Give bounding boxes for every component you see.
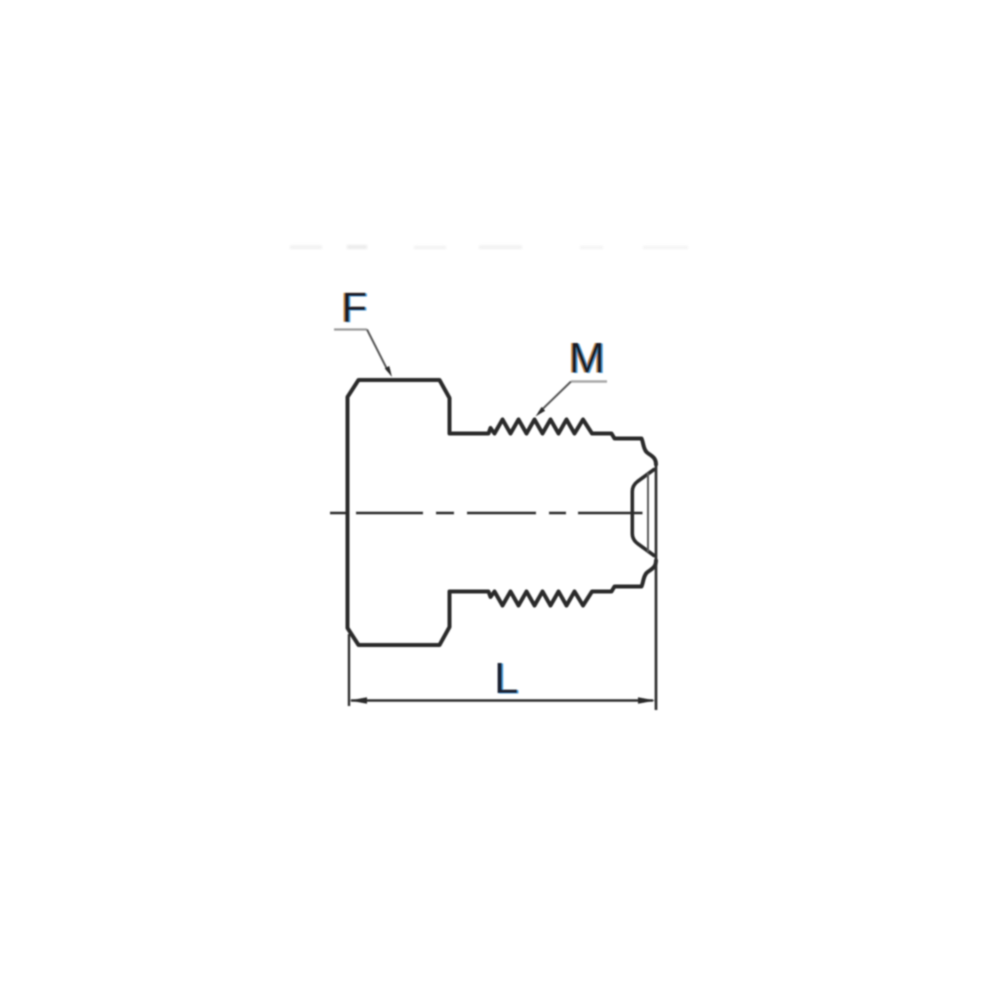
cone face edge line: [647, 473, 649, 552]
fitting body outline (hex head, threads, nose): [348, 380, 657, 645]
label M: [568, 335, 607, 384]
flare seat cone: [632, 470, 654, 556]
dimension line L: [351, 699, 653, 701]
left dimension arrowhead: [350, 697, 368, 704]
right dimension arrowhead: [638, 697, 656, 704]
F leader arrowhead: [385, 366, 392, 377]
svg-text:L: L: [494, 654, 518, 703]
svg-text:F: F: [342, 284, 368, 331]
right end face / extension line: [655, 462, 658, 710]
M leader line: [571, 380, 607, 383]
svg-text:M: M: [569, 335, 605, 383]
F leader line: [334, 328, 367, 330]
label F: [340, 284, 369, 332]
ghost smudges row: [290, 245, 688, 249]
left extension line: [348, 634, 350, 706]
M leader arrowhead: [536, 407, 546, 417]
label L: [494, 654, 520, 704]
centerline: [330, 512, 643, 515]
